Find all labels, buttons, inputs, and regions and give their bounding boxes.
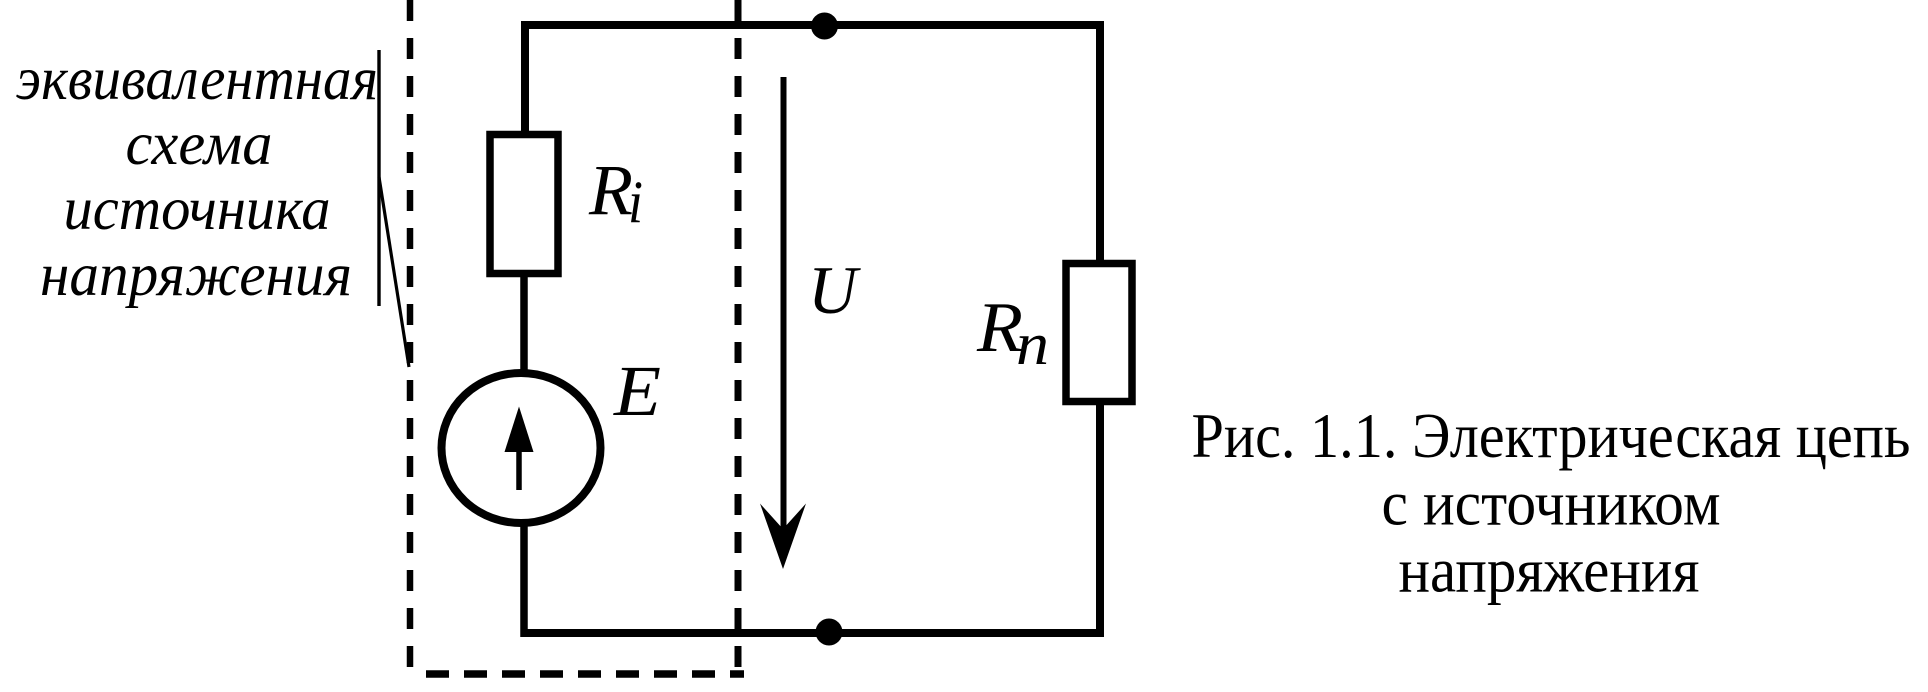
- node bottom junction dot: [816, 619, 843, 646]
- svg-text:n: n: [1016, 311, 1049, 377]
- svg-text:эквивалентная: эквивалентная: [16, 46, 378, 113]
- wire: below source E to bottom wire: [520, 524, 528, 637]
- wire: top horizontal: [521, 21, 1104, 29]
- dashed box left edge: [407, 0, 414, 677]
- node top junction dot: [811, 13, 838, 40]
- svg-text:напряжения: напряжения: [1399, 536, 1700, 606]
- wire: right vertical upper (top wire to Rn): [1096, 21, 1104, 264]
- svg-text:с источником: с источником: [1382, 469, 1721, 539]
- wire: right vertical lower (Rn to bottom wire): [1096, 401, 1104, 637]
- wire: bottom horizontal: [521, 629, 1104, 637]
- wire: top-left vertical from top wire to resistor Ri: [521, 21, 529, 135]
- voltage arrow U head: [760, 504, 806, 570]
- svg-text:R: R: [588, 150, 633, 230]
- svg-text:i: i: [628, 169, 643, 235]
- svg-text:U: U: [808, 252, 861, 328]
- voltage source E arrow shaft: [516, 448, 522, 490]
- leader line vertical segment: [377, 50, 380, 306]
- svg-text:напряжения: напряжения: [40, 242, 352, 309]
- svg-text:E: E: [613, 351, 661, 431]
- wire: between Ri and source E: [520, 274, 528, 374]
- voltage source E circle: [442, 373, 601, 523]
- svg-text:источника: источника: [64, 176, 331, 243]
- resistor Rn: [1066, 264, 1132, 402]
- resistor Ri: [490, 135, 558, 274]
- svg-text:схема: схема: [126, 111, 273, 178]
- voltage arrow U shaft: [781, 77, 787, 531]
- svg-text:Рис. 1.1. Электрическая цепь: Рис. 1.1. Электрическая цепь: [1192, 401, 1911, 471]
- voltage source E arrowhead: [505, 407, 534, 453]
- dashed box bottom edge: [426, 670, 744, 678]
- leader line diagonal segment: [379, 177, 409, 367]
- dashed box right edge: [735, 0, 742, 677]
